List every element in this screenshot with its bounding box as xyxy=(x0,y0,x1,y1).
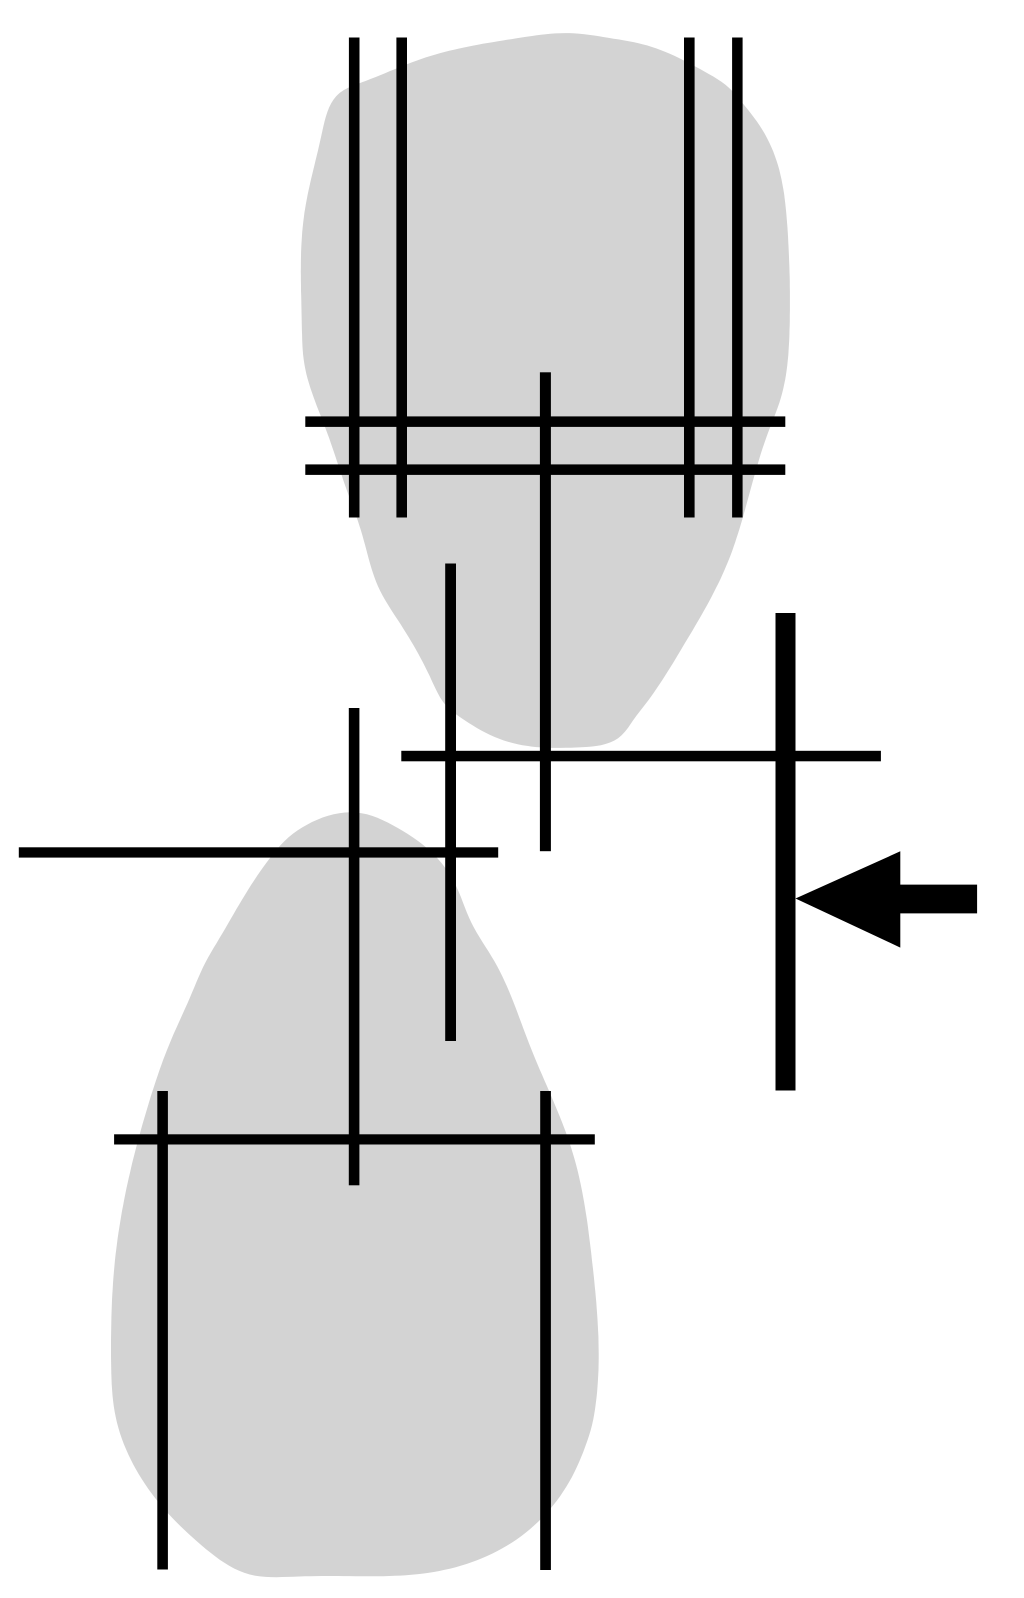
vertical line L3 xyxy=(684,38,695,518)
bottom gray blob xyxy=(111,812,599,1577)
vertical line L5 xyxy=(540,372,551,851)
vertical line L2 xyxy=(396,38,407,518)
vertical line L4 xyxy=(732,38,743,518)
vertical line L1 xyxy=(349,38,360,518)
horizontal line C xyxy=(401,751,881,762)
vertical line L8 (thick) xyxy=(776,613,796,1091)
arrow pointing left at L8 xyxy=(796,851,978,947)
vertical line L9 xyxy=(157,1091,168,1570)
horizontal line B xyxy=(305,464,785,475)
top gray blob xyxy=(301,33,790,748)
vertical line L6 xyxy=(445,564,456,1042)
vertical line L10 xyxy=(540,1091,551,1570)
horizontal line A xyxy=(305,416,785,427)
horizontal line D xyxy=(19,847,498,857)
horizontal line E xyxy=(114,1134,595,1144)
vertical line L7 xyxy=(349,708,360,1185)
